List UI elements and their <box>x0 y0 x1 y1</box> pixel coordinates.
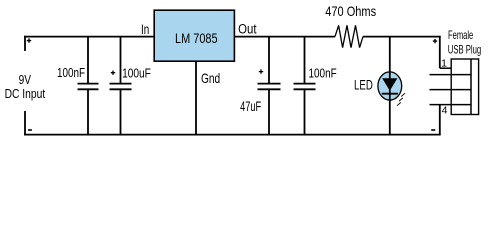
capacitor C4 100nF leads <box>304 37 306 135</box>
wire: negative input terminal stub (bottom left) <box>24 111 26 135</box>
label: plus sign at C2 <box>111 71 115 75</box>
svg-text:9V: 9V <box>19 72 32 87</box>
wire: top rail from resistor to USB corner <box>363 36 441 38</box>
connector J1: female USB plug body <box>451 59 478 115</box>
wire: regulator Gnd lead down to ground rail <box>195 61 197 134</box>
capacitor C4 100nF plates <box>294 84 316 90</box>
capacitor C2 100uF leads <box>120 37 122 135</box>
wire: USB pin 1 connecting stub <box>440 67 451 69</box>
connector J1: inner pin dividers <box>451 75 471 105</box>
capacitor C1 100nF plates <box>78 84 99 90</box>
wire: LED branch from top rail to ground rail <box>389 37 391 135</box>
svg-text:100uF: 100uF <box>122 66 151 81</box>
wire: USB pin 4 stub <box>430 104 472 106</box>
LED D1 cathode bar <box>382 93 398 95</box>
wire: top rail from input to regulator In <box>24 36 154 38</box>
op-amp-style box: voltage regulator U1 LM 7085 <box>154 10 234 61</box>
wire: USB pin 2 stub <box>430 74 472 76</box>
wire: bottom ground rail <box>24 134 441 136</box>
capacitor C3 47uF leads <box>268 37 270 135</box>
svg-text:Gnd: Gnd <box>201 70 220 86</box>
label: plus sign at 9V input <box>27 38 31 42</box>
svg-text:LM 7085: LM 7085 <box>175 30 218 46</box>
svg-text:100nF: 100nF <box>57 65 85 80</box>
wire: positive input terminal stub (top left) <box>24 36 26 51</box>
connector J1: inner contact column line <box>470 59 472 115</box>
svg-text:Out: Out <box>238 22 257 37</box>
svg-text:470 Ohms: 470 Ohms <box>325 3 376 19</box>
label: plus sign at USB plug <box>433 39 437 43</box>
svg-text:USB Plug: USB Plug <box>448 42 481 56</box>
capacitor C2 100uF plates <box>110 84 132 90</box>
wire: right rail down from top corner to USB pin 1 <box>439 36 441 68</box>
wire: right rail from USB pin 4 down to ground rail <box>439 105 441 136</box>
wire: top rail from regulator Out to resistor <box>234 36 335 38</box>
LED light rays <box>397 93 405 106</box>
wire: USB pin 3 stub <box>430 89 472 91</box>
svg-text:1: 1 <box>441 57 447 69</box>
svg-text:LED: LED <box>354 77 373 93</box>
label: minus sign at 9V input <box>28 129 32 131</box>
svg-text:4: 4 <box>442 104 448 116</box>
capacitor C3 47uF plates <box>258 84 281 90</box>
capacitor C1 100nF leads <box>87 37 89 135</box>
label: plus sign at C3 <box>259 69 263 73</box>
LED D1 body circle <box>378 72 402 100</box>
resistor R1 470 Ohms zigzag <box>335 25 363 47</box>
svg-text:100nF: 100nF <box>309 66 337 81</box>
svg-text:DC Input: DC Input <box>5 86 46 101</box>
svg-text:47uF: 47uF <box>240 99 261 114</box>
svg-text:Female: Female <box>448 28 473 42</box>
LED D1 anode triangle <box>382 78 397 91</box>
label: minus sign at USB plug <box>431 129 435 131</box>
svg-text:In: In <box>141 22 149 37</box>
